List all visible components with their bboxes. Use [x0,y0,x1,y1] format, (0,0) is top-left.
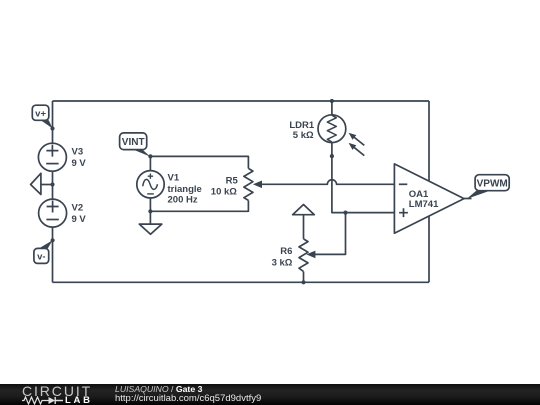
ground below V1 [139,211,162,234]
node: v- anchor [51,238,55,242]
wire: left rail lower [52,227,54,282]
svg-text:9 V: 9 V [72,158,87,169]
svg-text:v-: v- [37,252,45,263]
node: v+ anchor [50,126,54,130]
svg-text:R6: R6 [280,246,292,257]
svg-text:R5: R5 [226,175,239,186]
svg-text:LDR1: LDR1 [289,120,315,131]
voltage source V2 [39,199,87,227]
wire: plus net branch down to R6 wiper [311,213,346,255]
node: V1 bottom [148,209,152,213]
svg-text:VPWM: VPWM [477,179,508,190]
wire: R5 wiper arrowhead [253,181,262,189]
function generator V1 [137,171,202,206]
svg-text:triangle: triangle [168,184,202,195]
LDR LDR1 [289,101,364,156]
node: LDR1 bottom [330,154,334,158]
node: V1 top [148,154,152,158]
svg-text:V3: V3 [72,146,84,157]
CircuitLab logo [22,386,92,396]
svg-text:LM741: LM741 [409,199,439,210]
wire: V1 top net to R5 top [150,156,248,168]
net flag v- [34,240,53,263]
net flag VINT [120,133,151,157]
voltage source V3 [38,143,86,171]
ground (rotated left) at V3/V2 junction [31,173,53,194]
net flag VPWM [464,175,509,199]
node: V3/V2 junction [50,182,54,186]
potentiometer R6 [272,239,308,282]
wire: top rail [53,100,430,102]
wire: V1 top stub [149,156,151,170]
node: R6 bottom on rail [301,280,305,284]
wire: LDR1 bottom to plus net [332,143,395,213]
wire: R5 wiper to op-amp inverting input (with hop over LDR wire) [256,180,395,185]
wire: bottom rail [53,281,430,283]
svg-text:9 V: 9 V [72,214,87,225]
svg-text:10 kΩ: 10 kΩ [211,187,237,198]
wire: left rail upper [52,101,54,143]
svg-text:VINT: VINT [122,137,145,148]
svg-text:V2: V2 [72,202,84,213]
svg-text:200 Hz: 200 Hz [168,195,198,206]
ground (rotated up) above R6 [293,205,315,239]
svg-text:5 kΩ: 5 kΩ [293,130,314,141]
wire: R6 wiper arrowhead [306,251,315,259]
node: LDR1 top [330,99,334,103]
wire: left rail middle [52,171,54,199]
wire: V1 bottom stub [149,198,151,211]
wire: V1 bottom net to R5 bottom [150,200,248,211]
op-amp OA1 [394,164,464,233]
potentiometer R5 [211,168,253,200]
net flag v+ [32,105,52,128]
svg-text:3 kΩ: 3 kΩ [272,258,293,269]
svg-text:v+: v+ [35,108,46,119]
node: plus net junction [343,211,347,215]
wire: right rail [428,101,430,282]
svg-text:V1: V1 [168,173,180,184]
footer bar [0,384,540,405]
